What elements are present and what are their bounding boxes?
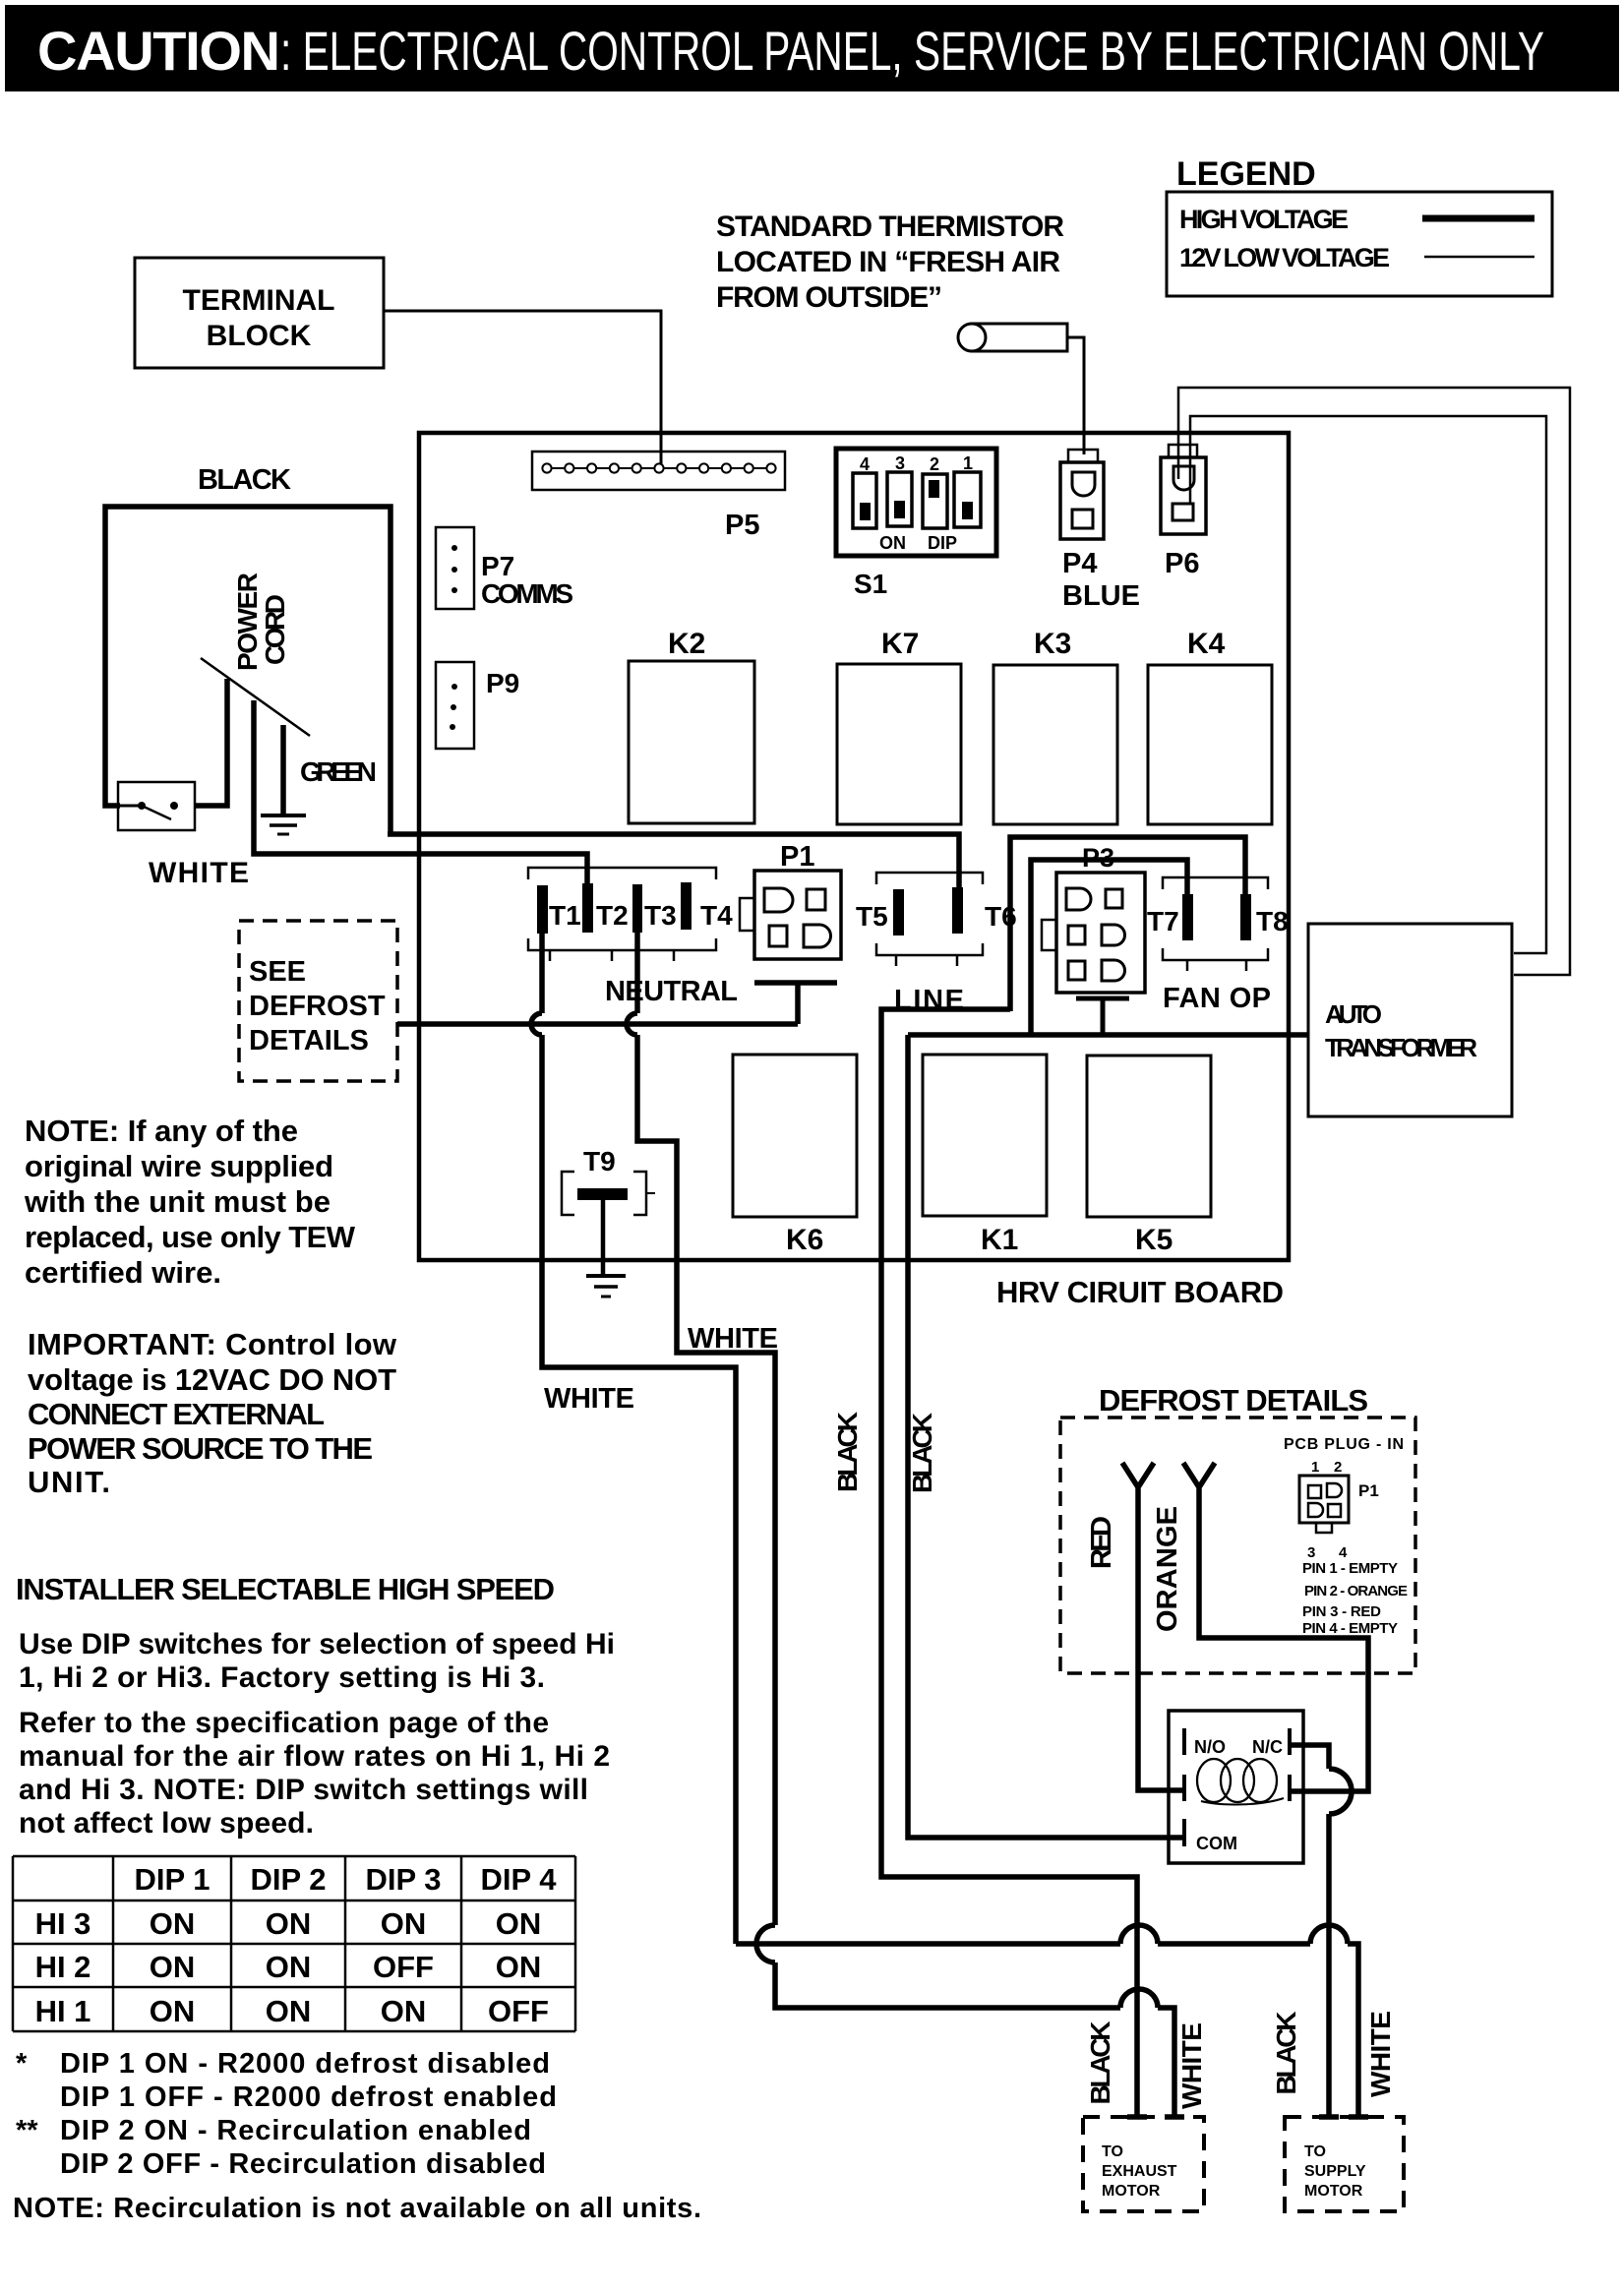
svg-text:INSTALLER SELECTABLE HIGH SPEE: INSTALLER SELECTABLE HIGH SPEED	[16, 1572, 555, 1606]
svg-text:WHITE: WHITE	[1365, 2011, 1396, 2097]
svg-text:HRV CIRUIT BOARD: HRV CIRUIT BOARD	[996, 1275, 1284, 1309]
label WHITE (supply)	[1365, 2011, 1396, 2097]
label WHITE (exhaust)	[1176, 2022, 1207, 2109]
label S1	[854, 569, 887, 599]
svg-text:ON: ON	[381, 1994, 427, 2028]
svg-text:PIN 3 - RED: PIN 3 - RED	[1302, 1603, 1381, 1620]
svg-text:NOTE: If any of the: NOTE: If any of the	[25, 1114, 298, 1148]
wire T8 to exhaust motor black	[881, 1009, 1137, 2117]
svg-text:12V LOW VOLTAGE: 12V LOW VOLTAGE	[1179, 243, 1390, 272]
terminal strip bracket T1-T4	[528, 868, 716, 961]
relay coil	[1197, 1759, 1284, 1804]
svg-text:DIP 3: DIP 3	[366, 1862, 442, 1897]
svg-text:with the unit must be: with the unit must be	[24, 1184, 331, 1219]
legend title	[1176, 155, 1316, 193]
switch S (power)	[118, 782, 195, 830]
see defrost details note box	[239, 921, 397, 1081]
wire relay NC to supply motor black	[1290, 1745, 1352, 2117]
svg-text:ON: ON	[496, 1906, 542, 1941]
svg-text:NOTE: Recirculation is not ava: NOTE: Recirculation is not available on …	[13, 2193, 701, 2224]
svg-text:Refer to the specification pag: Refer to the specification page of the	[19, 1707, 549, 1739]
svg-text:PCB PLUG - IN: PCB PLUG - IN	[1284, 1436, 1404, 1453]
svg-text:COM: COM	[1196, 1834, 1237, 1853]
power cord jacket line	[201, 658, 310, 736]
svg-text:voltage is 12VAC DO NOT: voltage is 12VAC DO NOT	[28, 1362, 396, 1397]
relay K7	[837, 628, 961, 824]
footnote dip settings	[13, 2048, 701, 2224]
svg-text:P6: P6	[1165, 548, 1199, 579]
label P3	[1082, 843, 1114, 873]
supply motor box	[1285, 2117, 1404, 2211]
svg-text:DIP 4: DIP 4	[481, 1862, 558, 1897]
svg-text:ON: ON	[879, 533, 906, 553]
svg-text:RED: RED	[1086, 1516, 1117, 1569]
defrost relay K	[1169, 1711, 1303, 1863]
svg-text:Use DIP switches for selection: Use DIP switches for selection of speed …	[19, 1628, 615, 1660]
svg-text:2: 2	[930, 454, 939, 474]
svg-text:4: 4	[860, 454, 870, 474]
svg-text:FAN OP: FAN OP	[1163, 983, 1271, 1014]
svg-text:T9: T9	[583, 1146, 616, 1177]
svg-text:MOTOR: MOTOR	[1102, 2183, 1161, 2200]
wire T1 white to supply motor	[531, 934, 1358, 2117]
svg-text:AUTO: AUTO	[1325, 999, 1382, 1029]
svg-text:K7: K7	[881, 628, 919, 660]
svg-text:CONNECT EXTERNAL: CONNECT EXTERNAL	[28, 1397, 325, 1431]
svg-text:WHITE: WHITE	[149, 857, 249, 889]
installer heading	[16, 1572, 555, 1606]
wire end exhaust black	[1127, 2114, 1147, 2120]
label ORANGE	[1152, 1506, 1183, 1632]
wire T7 loop	[1031, 860, 1187, 1037]
label BLACK (power cord)	[198, 464, 291, 496]
svg-text:TRANSFORMER: TRANSFORMER	[1325, 1033, 1477, 1062]
svg-text:BLUE: BLUE	[1062, 580, 1140, 612]
svg-text:S1: S1	[854, 569, 887, 599]
thermistor RT1	[958, 324, 1067, 351]
svg-text:DIP: DIP	[928, 533, 957, 553]
svg-text:P1: P1	[1358, 1481, 1379, 1500]
legend sample wire low voltage	[1424, 256, 1534, 259]
label FAN OP	[1163, 983, 1271, 1014]
note paragraph TEW	[24, 1114, 356, 1290]
label POWER CORD	[232, 573, 290, 671]
label WHITE (T1 wire)	[544, 1383, 634, 1415]
terminal T3	[632, 884, 677, 933]
svg-text:T1: T1	[549, 900, 581, 931]
connector P4	[1060, 450, 1104, 539]
terminal T9	[562, 1146, 655, 1215]
terminal T7	[1147, 894, 1193, 940]
svg-text:T7: T7	[1147, 906, 1179, 936]
wire red defrost lead	[1122, 1463, 1186, 1790]
svg-text:P1: P1	[780, 841, 814, 873]
connector P7	[436, 527, 474, 609]
svg-text:1, Hi 2 or Hi3. Factory settin: 1, Hi 2 or Hi3. Factory setting is Hi 3.	[19, 1661, 545, 1694]
defrost details title	[1099, 1383, 1368, 1418]
svg-text:DEFROST: DEFROST	[249, 991, 386, 1022]
svg-text:K3: K3	[1034, 628, 1071, 660]
svg-text:ON: ON	[496, 1950, 542, 1984]
label PCB PLUG - IN	[1284, 1436, 1404, 1453]
label P6	[1165, 548, 1199, 579]
wire thermistor to P4	[1067, 337, 1084, 454]
wire green power lead	[280, 725, 286, 814]
svg-text:PIN 2 - ORANGE: PIN 2 - ORANGE	[1304, 1583, 1408, 1599]
connector P1 (defrost detail)	[1299, 1459, 1349, 1561]
svg-text:T8: T8	[1256, 906, 1289, 936]
svg-text:4: 4	[1339, 1544, 1348, 1561]
svg-text:BLACK: BLACK	[907, 1413, 937, 1493]
svg-text:: ELECTRICAL CONTROL PANEL, SE: : ELECTRICAL CONTROL PANEL, SERVICE BY E…	[280, 20, 1544, 82]
svg-text:ON: ON	[266, 1950, 312, 1984]
dip switch settings table	[13, 1856, 575, 2031]
svg-text:N/O: N/O	[1194, 1737, 1226, 1757]
svg-text:ON: ON	[266, 1906, 312, 1941]
svg-text:1: 1	[963, 453, 973, 473]
svg-text:P9: P9	[486, 668, 519, 698]
installer paragraph 2	[19, 1707, 610, 1840]
label P5	[725, 510, 759, 541]
neutral bus	[397, 1021, 798, 1027]
svg-text:LEGEND: LEGEND	[1176, 155, 1316, 193]
exhaust motor box	[1083, 2117, 1204, 2211]
svg-text:WHITE: WHITE	[1176, 2022, 1207, 2109]
ground (T9)	[586, 1276, 626, 1297]
svg-text:DEFROST DETAILS: DEFROST DETAILS	[1099, 1383, 1368, 1418]
svg-text:TERMINAL: TERMINAL	[183, 284, 335, 317]
wire black lead to T6 (line)	[388, 834, 959, 887]
svg-text:HIGH VOLTAGE: HIGH VOLTAGE	[1179, 205, 1349, 234]
svg-text:and Hi 3. NOTE: DIP switch set: and Hi 3. NOTE: DIP switch settings will	[19, 1774, 588, 1806]
svg-text:3: 3	[1307, 1544, 1315, 1561]
svg-text:replaced, use only TEW: replaced, use only TEW	[25, 1220, 356, 1254]
svg-text:1: 1	[1311, 1459, 1319, 1476]
relay K3	[993, 628, 1117, 824]
installer paragraph 1	[19, 1628, 615, 1694]
svg-text:ON: ON	[150, 1906, 196, 1941]
relay K6	[733, 1055, 857, 1256]
terminal strip bracket T5-T6	[876, 873, 983, 966]
svg-text:IMPORTANT: Control low: IMPORTANT: Control low	[28, 1327, 397, 1361]
svg-text:ON: ON	[150, 1950, 196, 1984]
label WHITE (power cord)	[149, 857, 249, 889]
legend box	[1167, 192, 1552, 296]
wire P6 pin to auto transformer (outer low voltage)	[1178, 388, 1570, 975]
svg-text:ON: ON	[381, 1906, 427, 1941]
wire end supply white	[1349, 2114, 1368, 2120]
svg-text:WHITE: WHITE	[688, 1323, 778, 1355]
svg-text:2: 2	[1334, 1459, 1342, 1476]
label P9	[486, 668, 519, 698]
svg-text:DIP 2 ON - Recirculation enabl: DIP 2 ON - Recirculation enabled	[60, 2115, 531, 2146]
svg-text:BLOCK: BLOCK	[207, 320, 312, 352]
svg-text:SUPPLY: SUPPLY	[1304, 2163, 1366, 2180]
auto transformer TR1	[1308, 924, 1512, 1116]
wire switch to cord (black)	[195, 679, 227, 806]
wire black power lead	[105, 507, 391, 834]
terminal T4	[681, 882, 733, 931]
svg-text:COMMS: COMMS	[481, 578, 573, 609]
svg-text:BLACK: BLACK	[1271, 2012, 1301, 2095]
svg-text:3: 3	[895, 453, 905, 473]
connector P9	[436, 662, 474, 749]
svg-text:WHITE: WHITE	[544, 1383, 634, 1415]
svg-text:certified wire.: certified wire.	[25, 1255, 221, 1290]
thermistor note text	[716, 211, 1064, 314]
svg-text:K6: K6	[786, 1224, 823, 1256]
svg-text:BLACK: BLACK	[1085, 2021, 1115, 2105]
svg-text:TO: TO	[1304, 2143, 1326, 2160]
svg-text:TO: TO	[1102, 2143, 1123, 2160]
wire P6 pin to auto transformer (inner low voltage)	[1190, 416, 1546, 953]
terminal T6	[952, 887, 1017, 934]
HRV circuit board outline	[419, 433, 1289, 1260]
legend label high voltage	[1179, 205, 1349, 234]
label LINE	[894, 985, 964, 1016]
wire orange defrost lead	[1183, 1463, 1368, 1791]
svg-text:DIP 2 OFF - Recirculation disa: DIP 2 OFF - Recirculation disabled	[60, 2148, 546, 2180]
wire white power lead	[254, 700, 587, 885]
terminal T2	[582, 883, 629, 933]
svg-text:**: **	[16, 2115, 38, 2146]
svg-text:T2: T2	[596, 900, 629, 931]
label P7 COMMS	[481, 551, 573, 609]
svg-text:BLACK: BLACK	[198, 464, 291, 496]
label WHITE (T3 wire)	[688, 1323, 778, 1355]
svg-text:ORANGE: ORANGE	[1152, 1506, 1183, 1632]
svg-text:PIN 4 - EMPTY: PIN 4 - EMPTY	[1302, 1620, 1398, 1637]
svg-text:T3: T3	[644, 900, 677, 931]
terminal strip bracket T7-T8	[1163, 877, 1268, 971]
svg-text:MOTOR: MOTOR	[1304, 2183, 1363, 2200]
terminal T1	[537, 885, 581, 934]
connector P5	[532, 452, 785, 490]
svg-text:LOCATED IN “FRESH AIR: LOCATED IN “FRESH AIR	[716, 246, 1060, 278]
label P4 BLUE	[1062, 548, 1140, 612]
label GREEN	[300, 756, 377, 787]
svg-text:OFF: OFF	[373, 1950, 434, 1984]
svg-text:STANDARD THERMISTOR: STANDARD THERMISTOR	[716, 211, 1064, 243]
wire T9 to ground	[601, 1200, 606, 1274]
important paragraph 12vac	[28, 1327, 397, 1499]
svg-text:UNIT.: UNIT.	[28, 1465, 110, 1499]
svg-text:K1: K1	[981, 1224, 1018, 1256]
wire P3 stem	[1101, 998, 1106, 1037]
svg-text:SEE: SEE	[249, 956, 306, 988]
svg-text:CAUTION: CAUTION	[37, 20, 280, 82]
dip switch S1	[836, 449, 996, 556]
svg-text:T4: T4	[700, 900, 733, 931]
wire end supply black	[1319, 2114, 1339, 2120]
svg-text:DIP 1: DIP 1	[135, 1862, 211, 1897]
defrost details box	[1060, 1418, 1415, 1673]
svg-text:EXHAUST: EXHAUST	[1102, 2163, 1177, 2180]
svg-text:K5: K5	[1135, 1224, 1173, 1256]
svg-text:GREEN: GREEN	[300, 756, 377, 787]
ground (green wire)	[261, 815, 306, 834]
relay K2	[629, 628, 754, 823]
legend label 12v low voltage	[1179, 243, 1390, 272]
svg-text:ON: ON	[266, 1994, 312, 2028]
svg-text:CORD: CORD	[260, 594, 290, 665]
svg-text:P7: P7	[481, 551, 514, 581]
svg-text:HI 2: HI 2	[35, 1950, 91, 1984]
svg-text:T5: T5	[856, 901, 888, 932]
terminal T5	[856, 889, 904, 935]
svg-text:HI 3: HI 3	[35, 1906, 91, 1941]
svg-text:not affect low speed.: not affect low speed.	[19, 1807, 314, 1840]
pin assignment list	[1302, 1560, 1408, 1637]
label BLACK (supply)	[1271, 2012, 1301, 2095]
svg-text:HI 1: HI 1	[35, 1994, 91, 2028]
svg-text:original wire supplied: original wire supplied	[25, 1149, 333, 1183]
connector P3	[1042, 873, 1145, 998]
svg-text:N/C: N/C	[1252, 1737, 1283, 1757]
svg-text:PIN 1 - EMPTY: PIN 1 - EMPTY	[1302, 1560, 1398, 1577]
caution banner	[5, 5, 1619, 91]
relay K5	[1087, 1056, 1211, 1256]
relay K4	[1148, 628, 1272, 824]
svg-text:K4: K4	[1187, 628, 1226, 660]
label BLACK (T7 wire)	[907, 1413, 937, 1493]
svg-text:DIP 1 ON - R2000 defrost disab: DIP 1 ON - R2000 defrost disabled	[60, 2048, 550, 2080]
label BLACK (T8 wire)	[832, 1412, 863, 1492]
label BLACK (exhaust)	[1085, 2021, 1115, 2105]
label RED	[1086, 1516, 1117, 1569]
HRV circuit board caption	[996, 1275, 1284, 1309]
svg-text:BLACK: BLACK	[832, 1412, 863, 1492]
svg-text:P4: P4	[1062, 548, 1097, 579]
svg-text:*: *	[16, 2048, 28, 2080]
svg-text:K2: K2	[668, 628, 705, 660]
label P1 (defrost detail)	[1358, 1481, 1379, 1500]
terminal T8	[1240, 894, 1289, 940]
wire T7 / P3 / transformer bus	[908, 1032, 1308, 1038]
neutral bus tap	[754, 983, 837, 1024]
wire T3 white to exhaust motor	[627, 933, 1174, 2117]
svg-text:DIP 1 OFF - R2000 defrost enab: DIP 1 OFF - R2000 defrost enabled	[60, 2082, 557, 2113]
connector P6	[1161, 445, 1206, 534]
label NEUTRAL	[605, 976, 738, 1007]
wire T7 bus to relay COM	[908, 1035, 1186, 1838]
legend sample wire high voltage	[1422, 215, 1534, 222]
svg-text:POWER: POWER	[232, 573, 263, 671]
svg-text:FROM OUTSIDE”: FROM OUTSIDE”	[716, 281, 942, 314]
wire T8 loop	[1010, 837, 1245, 1011]
svg-text:OFF: OFF	[488, 1994, 549, 2028]
connector P1	[740, 871, 841, 959]
wire end exhaust white	[1165, 2114, 1184, 2120]
wire terminal block to P5	[384, 311, 661, 464]
terminal block TB1	[135, 258, 384, 368]
svg-text:POWER SOURCE TO THE: POWER SOURCE TO THE	[28, 1431, 373, 1466]
svg-text:DETAILS: DETAILS	[249, 1025, 369, 1056]
svg-text:DIP 2: DIP 2	[251, 1862, 327, 1897]
svg-text:P5: P5	[725, 510, 759, 541]
svg-text:ON: ON	[150, 1994, 196, 2028]
svg-text:manual for the air flow rates: manual for the air flow rates on Hi 1, H…	[19, 1740, 610, 1773]
relay K1	[923, 1055, 1047, 1256]
label P1	[780, 841, 814, 873]
svg-text:NEUTRAL: NEUTRAL	[605, 976, 738, 1007]
